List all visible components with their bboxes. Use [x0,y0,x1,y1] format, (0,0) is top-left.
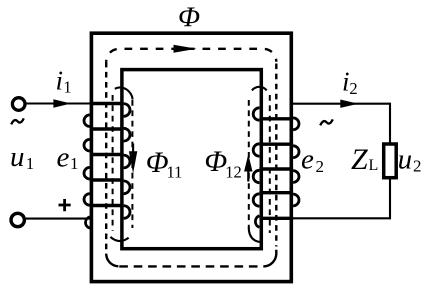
ac tilde (left) [11,118,24,124]
terminal (top left) [12,98,25,111]
current arrow i1 [53,99,71,107]
main flux path (dashed loop) top run [106,49,276,62]
svg-text:Z: Z [351,143,368,176]
leakage flux PHI12 leg line (dashed) [269,95,271,233]
leakage flux PHI12 top turn arc [252,87,267,91]
leakage flux PHI12 bottom turn arc [249,228,261,243]
svg-text:2: 2 [413,157,422,176]
main flux path left run [105,62,107,250]
wire: load right vertical top [389,103,391,143]
svg-text:e: e [301,144,314,176]
main flux path right run [275,64,277,247]
wire: secondary bottom return [292,217,391,219]
secondary winding N2 (right leg) [253,108,299,228]
svg-text:1: 1 [63,78,71,97]
transformer core inner window outline [122,70,261,249]
svg-text:12: 12 [225,162,242,181]
leakage flux PHI11 bottom turn arc [110,237,128,241]
wire: secondary top lead [291,103,390,105]
current arrow i2 [340,100,358,108]
svg-text:u: u [398,143,413,175]
ac tilde (right) [320,119,333,125]
svg-text:e: e [57,142,70,174]
plus sign [59,199,71,211]
PHI11 direction arrow (down) [132,144,134,154]
primary winding N1 (left leg) [84,104,130,229]
terminal (bottom left) [11,213,24,226]
leakage flux PHI11 window return line (dashed) [131,100,133,228]
svg-text:Φ: Φ [204,145,227,178]
svg-text:11: 11 [167,162,183,181]
main flux path bottom-left corner [106,254,118,267]
transformer core outer outline [91,33,291,281]
main flux path bottom-right corner [263,250,276,267]
wire: primary bottom lead [26,218,92,220]
main flux path bottom run [119,265,257,267]
svg-text:L: L [369,157,379,174]
leakage flux PHI11 top turn arc [115,87,133,99]
wire: load right vertical bottom [389,179,391,219]
load impedance ZL box [384,144,397,178]
leakage flux PHI11 leg line (dashed) [112,95,114,231]
svg-text:2: 2 [349,79,357,98]
svg-text:i: i [342,67,350,97]
svg-text:2: 2 [316,157,325,176]
svg-text:Φ: Φ [146,146,169,179]
main flux direction arrow [174,45,197,53]
svg-text:i: i [56,66,64,96]
svg-text:1: 1 [26,154,35,173]
svg-text:Φ: Φ [178,2,200,34]
svg-text:u: u [10,141,25,173]
leakage flux PHI12 window return line (dashed) [248,100,250,228]
PHI12 direction arrow (up) [247,171,249,182]
wire: primary top lead [27,102,91,104]
svg-text:1: 1 [70,154,79,173]
